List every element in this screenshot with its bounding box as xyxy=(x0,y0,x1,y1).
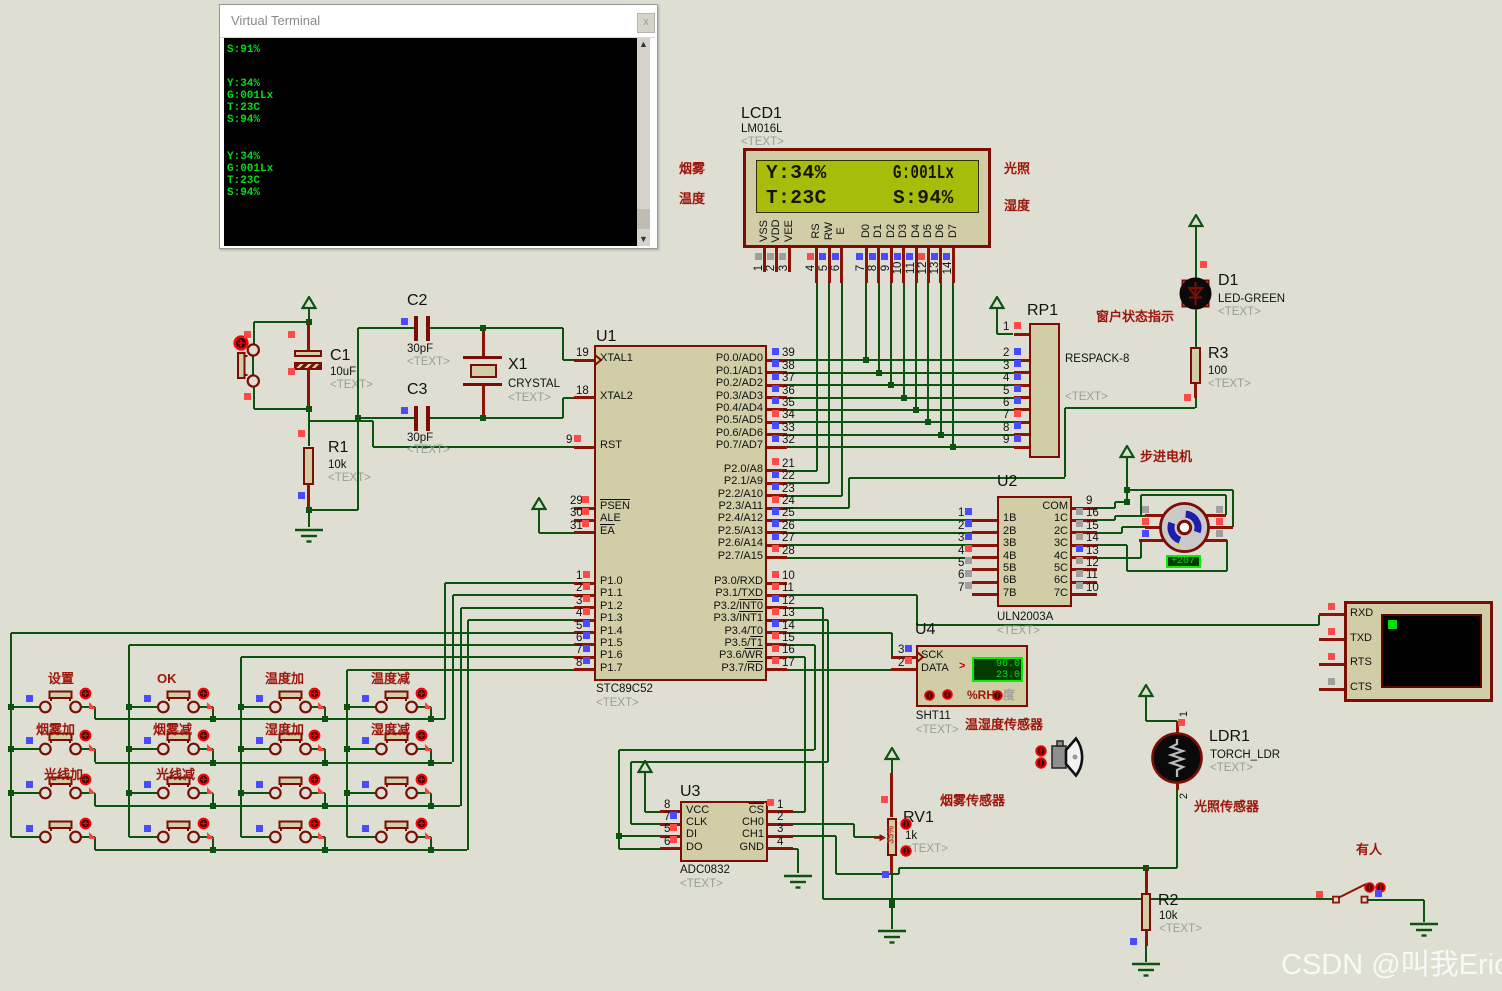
U1 pin P2.4 xyxy=(767,519,787,522)
LCD LCD1 body xyxy=(743,148,991,248)
wire RST net to U1 xyxy=(308,409,310,421)
resistor R2 xyxy=(1145,868,1148,893)
terminal component body xyxy=(1344,601,1493,702)
wire R3 bottom xyxy=(1194,384,1197,398)
U1 pin P1.3 xyxy=(574,619,594,622)
terminal pin CTS xyxy=(1319,688,1344,691)
U1 pin P3.5 xyxy=(767,643,787,646)
wire keypad column 2 to P1.5 xyxy=(129,644,574,646)
speaker buttons xyxy=(1035,745,1047,757)
label presence xyxy=(1356,843,1382,857)
LED D1 xyxy=(1178,276,1213,311)
pushbutton reset xyxy=(253,386,255,409)
resistor R3 xyxy=(1190,347,1201,384)
RP1 pin 3 xyxy=(1014,371,1029,374)
wire LCD E to P2.2 xyxy=(841,283,843,496)
U1 body xyxy=(596,329,616,346)
U3 pin VCC xyxy=(660,810,680,813)
U2 pin 6C xyxy=(1072,581,1097,584)
U1 pin P2.7 xyxy=(767,556,787,559)
wire 4C to motor xyxy=(1097,557,1141,559)
wire VCC U3 xyxy=(644,786,646,812)
terminal pin TXD xyxy=(1319,638,1344,641)
U1 pin P1.5 xyxy=(574,643,594,646)
node C3 left xyxy=(355,415,361,421)
wire D1 to R3 xyxy=(1195,309,1197,348)
U3 pin CLK xyxy=(660,823,680,826)
respack RP1 body xyxy=(1027,303,1058,320)
key row2 col1 xyxy=(8,746,14,752)
RV1 bottom pin xyxy=(890,856,893,874)
U2 pin 7B xyxy=(972,593,997,596)
stepper position display +207 xyxy=(1166,555,1201,568)
label light right of LCD xyxy=(1004,162,1030,176)
LCD LCD1 labels xyxy=(741,106,782,123)
wire 3C to motor lower loop xyxy=(1097,544,1127,546)
watermark xyxy=(1281,950,1502,980)
wire power to LDR xyxy=(1145,710,1147,721)
power symbol LDR xyxy=(1138,684,1154,711)
U1 pin P3.2 xyxy=(767,606,787,609)
power symbol ADC VCC xyxy=(637,760,653,787)
label stepper motor xyxy=(1140,450,1192,464)
U3 pin DO xyxy=(660,847,680,850)
stepper motor body xyxy=(1158,501,1211,554)
ground reset xyxy=(308,510,310,528)
U2 pin 3C xyxy=(1072,544,1097,547)
U1 pin P2.1 xyxy=(767,482,787,485)
wire DI DO xyxy=(619,835,660,837)
U1 pin P3.3 xyxy=(767,619,787,622)
potentiometer RV1 xyxy=(887,818,898,857)
wire keypad row 2 bus to P1.1 xyxy=(453,594,575,596)
RP1 pin 1 xyxy=(1014,333,1029,336)
U1 pin P2.0 xyxy=(767,469,787,472)
wire power to D1 xyxy=(1195,240,1197,278)
U3 pin 2 xyxy=(768,823,793,826)
wire VCC to C1 and button xyxy=(254,321,308,323)
virtual terminal screen xyxy=(224,38,637,246)
key row2 col4 xyxy=(344,746,350,752)
key row4 col1 xyxy=(11,836,40,838)
U2 pin COM xyxy=(1072,507,1097,510)
node stepper power 1 xyxy=(1124,487,1130,493)
speaker icon xyxy=(1050,735,1090,779)
wire stepper power rail xyxy=(1126,471,1128,502)
U3 pin DI xyxy=(660,835,680,838)
U1 pin P1.2 xyxy=(574,606,594,609)
wire GND U3 xyxy=(793,848,798,850)
RV1 top pin xyxy=(890,773,893,817)
capacitor C3 xyxy=(407,382,427,399)
LCD text row2 xyxy=(766,188,827,208)
wire keypad row 4 bus to P1.3 xyxy=(468,619,575,621)
wire XTAL1 xyxy=(562,328,564,360)
label smoke left of LCD xyxy=(679,162,705,176)
U2 pin 1B xyxy=(972,519,997,522)
capacitor C1 xyxy=(307,322,310,350)
U4 pin DATA xyxy=(891,668,916,671)
U1 pin EA xyxy=(574,531,594,534)
key row3 col1 xyxy=(8,790,14,796)
LDR LDR1 xyxy=(1150,731,1204,785)
wires P2.4-P2.7 to ULN2003 1B-4B xyxy=(787,519,973,521)
wire RV1 bottom node xyxy=(891,874,893,929)
U2 pin 1C xyxy=(1072,519,1097,522)
node RST xyxy=(306,406,312,412)
crystal X1 xyxy=(482,328,485,356)
U3 pin 1 xyxy=(768,810,793,813)
wire keypad column 3 to P1.6 xyxy=(241,656,574,658)
LCD LCD1 screen xyxy=(756,160,979,213)
wire XTAL2 xyxy=(562,398,564,418)
node R2 top xyxy=(1143,865,1149,871)
U2 pin 3B xyxy=(972,544,997,547)
U2 pin 6B xyxy=(972,581,997,584)
terminal text xyxy=(227,45,260,57)
U1 pin PSEN xyxy=(574,507,594,510)
RP1 pin 9 xyxy=(1014,446,1029,449)
terminal component screen xyxy=(1381,614,1482,688)
RP1 pin 4 xyxy=(1014,384,1029,387)
U2 pin 2B xyxy=(972,531,997,534)
U1 pin P2.2 xyxy=(767,494,787,497)
power symbol EA xyxy=(531,497,547,524)
key row3 col2 xyxy=(126,790,132,796)
wire P3.2/INT0 to presence switch xyxy=(787,607,823,609)
switch buttons xyxy=(1364,882,1375,893)
key row2 col3 xyxy=(238,746,244,752)
U1 pin P1.6 xyxy=(574,656,594,659)
node R1 bottom xyxy=(306,507,312,513)
key row4 col4 xyxy=(347,836,376,838)
LCD pin names xyxy=(759,220,771,242)
ground switch xyxy=(1408,922,1440,938)
key row1 col3 xyxy=(238,704,244,710)
U2 pin 4B xyxy=(972,556,997,559)
U1 pin XTAL1 xyxy=(574,359,594,362)
U1 pin P0.0 xyxy=(767,359,787,362)
RV1 buttons xyxy=(900,818,912,830)
power symbol stepper xyxy=(1119,445,1135,472)
virtual terminal close button xyxy=(637,13,655,33)
U1 pin P1.1 xyxy=(574,594,594,597)
wire P3.4/T0 to SHT11 SCK xyxy=(787,632,893,634)
U2 pin 2C xyxy=(1072,531,1097,534)
resistor R1 xyxy=(308,409,310,447)
wire P2.3 to R3 (window LED) xyxy=(787,507,849,509)
wire COM to power xyxy=(1097,507,1115,509)
stepper motor pins xyxy=(1145,514,1184,517)
node C1 top xyxy=(306,319,312,325)
RP1 pin 5 xyxy=(1014,396,1029,399)
U1 pin P2.5 xyxy=(767,531,787,534)
node X1 bottom xyxy=(480,415,486,421)
U1 clock marker XTAL1 xyxy=(594,354,603,366)
LCD pin stubs and numbers xyxy=(763,248,766,272)
terminal pin RTS xyxy=(1319,663,1344,666)
power symbol RP1 xyxy=(989,296,1005,323)
label temp humidity sensor xyxy=(965,718,1043,732)
label temperature left of LCD xyxy=(679,192,705,206)
RP1 pin 2 xyxy=(1014,359,1029,362)
U4 percent RH label xyxy=(967,689,995,702)
wire keypad column 4 to P1.7 xyxy=(347,669,574,671)
U1 pin P0.7 xyxy=(767,446,787,449)
wire bus P0 to RP1 and LCD data xyxy=(787,359,1014,361)
label light sensor xyxy=(1194,800,1259,814)
key row3 col4 xyxy=(344,790,350,796)
wire LDR bottom xyxy=(1176,783,1179,790)
key row1 col2 xyxy=(126,704,132,710)
U1 pin P0.4 xyxy=(767,408,787,411)
capacitor C2 xyxy=(407,293,427,310)
node stepper power 2 xyxy=(1124,499,1130,505)
U1 pin P1.7 xyxy=(574,668,594,671)
U1 pin ALE xyxy=(574,519,594,522)
label smoke sensor xyxy=(940,794,1005,808)
U2 pin 5B xyxy=(972,568,997,571)
wire LCD RS to P2.0 xyxy=(816,283,818,471)
terminal pin RXD xyxy=(1319,613,1344,616)
wire R2 bottom ground xyxy=(1145,946,1147,962)
U1 pin P0.1 xyxy=(767,371,787,374)
label window status xyxy=(1096,310,1174,324)
node X1 top xyxy=(480,325,486,331)
key row1 col1 xyxy=(8,704,14,710)
key row4 col3 xyxy=(241,836,270,838)
U1 pin P2.3 xyxy=(767,507,787,510)
U3 pin 3 xyxy=(768,835,793,838)
wire switch to ground xyxy=(1368,899,1424,901)
wire keypad row 3 bus to P1.2 xyxy=(461,607,575,609)
RV1 wiper arrow xyxy=(874,832,887,844)
U1 pin P1.0 xyxy=(574,582,594,585)
wire CH1 to RV1 bottom xyxy=(793,835,836,837)
wire P3.6/WR to ADC CS xyxy=(787,656,806,658)
terminal scrollbar xyxy=(637,38,650,246)
U2 pin 4C xyxy=(1072,556,1097,559)
ground ADC xyxy=(782,874,814,890)
U1 pin RST xyxy=(574,446,594,449)
power symbol RV1 xyxy=(884,747,900,774)
key row3 col3 xyxy=(238,790,244,796)
wire P3.5/T1 to ADC DI DO xyxy=(787,644,815,646)
wire LCD RW to P2.1 xyxy=(828,283,830,483)
key row4 col2 xyxy=(129,836,158,838)
ground R2 xyxy=(1130,962,1162,978)
LCD text row1 xyxy=(766,163,827,183)
wire power to motor right middle xyxy=(1127,489,1233,491)
key row2 col2 xyxy=(126,746,132,752)
virtual terminal window xyxy=(219,4,658,249)
U1 pin P3.7 xyxy=(767,668,787,671)
U1 pin P3.6 xyxy=(767,656,787,659)
U1 pin XTAL2 xyxy=(574,396,594,399)
wire keypad column 1 to P1.4 xyxy=(11,632,574,634)
U1 pin P2.6 xyxy=(767,544,787,547)
U1 pin P0.2 xyxy=(767,384,787,387)
U2 pin 7C xyxy=(1072,593,1097,596)
wire P3.3/INT1 to ADC CLK xyxy=(787,619,829,621)
U3 pin 4 xyxy=(768,847,793,850)
U1 pin P3.1 xyxy=(767,594,787,597)
U1 pin P3.0 xyxy=(767,582,787,585)
U1 pin P0.5 xyxy=(767,421,787,424)
U2 pin 5C xyxy=(1072,568,1097,571)
U1 pin P3.4 xyxy=(767,631,787,634)
wire CLK from riser xyxy=(631,823,660,825)
wire CH0 to RV1 wiper xyxy=(793,823,854,825)
RP1 pin 6 xyxy=(1014,408,1029,411)
node RV1 ground xyxy=(889,902,895,908)
uln2003 U2 body xyxy=(997,474,1017,491)
node INT0-RV1 crossing xyxy=(889,900,895,906)
sht11 U4 body xyxy=(915,622,935,639)
RP1 pin 7 xyxy=(1014,421,1029,424)
power symbol VCC reset xyxy=(301,296,317,323)
U4 display xyxy=(972,657,1023,682)
wire P3.7/RD to SHT11 DATA xyxy=(787,669,892,671)
wire P3.1/TXD to terminal RXD xyxy=(787,594,918,596)
wire 2C to motor xyxy=(1097,532,1122,534)
wire 1C to motor xyxy=(1097,519,1115,521)
U4 buttons xyxy=(924,690,935,701)
U4 pin SCK xyxy=(891,656,916,659)
label humidity right of LCD xyxy=(1004,199,1030,213)
key row1 col4 xyxy=(344,704,350,710)
wire RP1 pin1 to power xyxy=(996,322,998,334)
wire keypad row 1 bus to P1.0 xyxy=(445,582,574,584)
power symbol D1 xyxy=(1188,214,1204,241)
U1 pin P0.6 xyxy=(767,433,787,436)
wire caps ground rail xyxy=(309,509,358,511)
U1 pin P0.3 xyxy=(767,396,787,399)
adc0832 U3 body xyxy=(680,784,700,801)
wire motor top loop xyxy=(1141,494,1227,496)
node ADC DI junction xyxy=(616,833,622,839)
RP1 pin 8 xyxy=(1014,433,1029,436)
U1 pin P1.4 xyxy=(574,631,594,634)
ground RV1 xyxy=(876,929,908,945)
switch presence xyxy=(1316,891,1323,898)
